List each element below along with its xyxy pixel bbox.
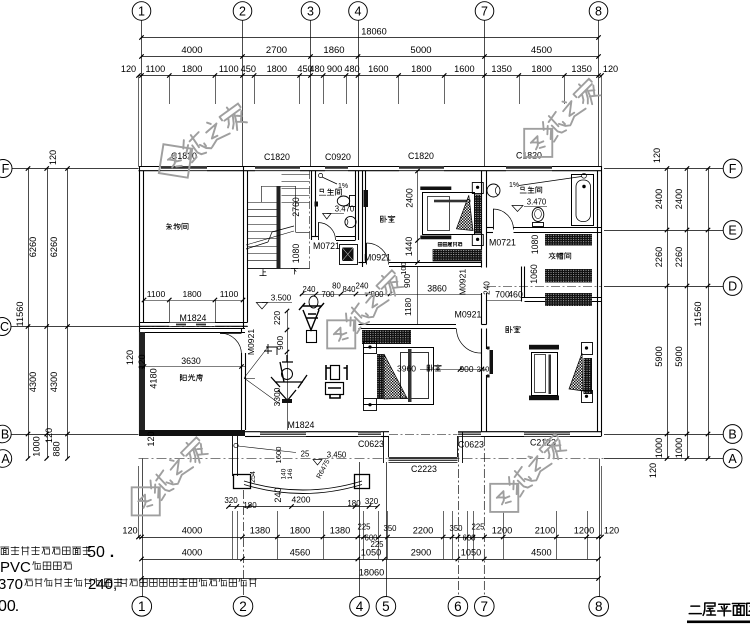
svg-text:1440: 1440 <box>404 237 414 257</box>
svg-text:1100: 1100 <box>220 289 239 299</box>
bath1 level 3.470 <box>323 205 355 220</box>
bath1 toilet <box>337 196 355 207</box>
right dim texts 120 2400 2260 11560 5900 1000 120 <box>648 148 703 478</box>
svg-text:240: 240 <box>477 365 490 374</box>
svg-text:350: 350 <box>383 524 397 533</box>
svg-text:450: 450 <box>241 64 256 74</box>
hall door label M0921 vertical <box>246 329 256 355</box>
svg-text:8: 8 <box>595 5 602 19</box>
svg-text:900: 900 <box>460 364 474 374</box>
svg-text:1000: 1000 <box>674 438 684 458</box>
svg-text:A: A <box>1 452 10 466</box>
svg-text:120: 120 <box>604 526 619 536</box>
stair break line <box>246 226 294 249</box>
svg-text:240,: 240, <box>88 576 117 593</box>
svg-text:3300: 3300 <box>272 387 282 406</box>
balcony small circle + 25 leader <box>234 443 310 458</box>
interior wall bath1 left x311 <box>312 171 316 240</box>
svg-text:PVC: PVC <box>0 559 31 576</box>
grid bubbles bottom 1 2 4 5 6 7 8 <box>132 597 609 617</box>
interior wall x481 full height <box>482 171 494 432</box>
svg-text:1100: 1100 <box>219 64 239 74</box>
window C0623 right in wall B <box>458 432 481 437</box>
sunroom bottom thick wall <box>139 430 245 436</box>
svg-text:240: 240 <box>483 281 492 295</box>
interior wall storage bottom y324 M1824 opening <box>139 300 248 327</box>
sunroom top wall <box>139 329 245 333</box>
svg-text:D: D <box>728 280 737 294</box>
bedroom1 wardrobe hatch <box>433 249 482 261</box>
hall leader diagonals <box>244 347 280 404</box>
svg-text:120: 120 <box>44 428 54 443</box>
bottom dimension row 18060 <box>139 568 600 581</box>
svg-text:11560: 11560 <box>15 302 25 327</box>
svg-text:120: 120 <box>648 463 658 478</box>
note line2 PVC <box>0 559 71 576</box>
note line4 <box>0 598 19 615</box>
bath2 toilet <box>532 208 544 227</box>
svg-text:.: . <box>15 598 19 615</box>
svg-text:4300: 4300 <box>49 372 59 392</box>
svg-text:C2223: C2223 <box>411 464 437 474</box>
balcony pillar right <box>355 475 370 489</box>
svg-text:350: 350 <box>449 524 463 533</box>
bath1 floor drain + leader 1% <box>319 173 349 190</box>
svg-text:M1824: M1824 <box>288 420 315 430</box>
watermark D center <box>313 263 412 362</box>
svg-text:6260: 6260 <box>49 237 59 257</box>
svg-text:3630: 3630 <box>181 356 201 366</box>
hall gym machine 1 <box>299 296 324 343</box>
svg-text:1060: 1060 <box>529 264 539 284</box>
svg-text:M0921: M0921 <box>364 253 391 263</box>
svg-text:25: 25 <box>301 450 310 459</box>
title 二层平面图 <box>687 603 750 623</box>
svg-text:B: B <box>1 428 9 442</box>
sunroom door M0921 arc <box>220 333 242 355</box>
interior wall stair left x243 <box>244 166 248 329</box>
svg-text:320: 320 <box>365 497 379 506</box>
svg-text:1000: 1000 <box>32 436 42 456</box>
stair treads <box>248 175 310 269</box>
hall vertical dim chain 1440 100 900 1180 <box>399 262 418 324</box>
bath1 washbasin <box>345 216 356 227</box>
svg-text:900: 900 <box>275 336 285 350</box>
svg-text:600: 600 <box>462 534 476 543</box>
bedroom1 bed <box>420 183 483 246</box>
svg-text:M1824: M1824 <box>180 313 207 323</box>
bottom dimension row C 4000 4560 1050 2900 1050 4500 <box>139 540 600 561</box>
sunroom label <box>180 374 202 381</box>
svg-text:1860: 1860 <box>323 45 344 56</box>
svg-text:6: 6 <box>454 599 462 614</box>
svg-text:4: 4 <box>355 5 362 19</box>
svg-text:3.470: 3.470 <box>527 198 547 207</box>
interior wall bedroom3 top y299 <box>521 298 602 302</box>
left dimension vertical lines <box>26 166 70 460</box>
svg-text:C1820: C1820 <box>264 152 290 162</box>
storage door label M1824 <box>180 313 207 323</box>
left grid line F <box>2 168 139 170</box>
watermark F bottom right <box>476 426 575 525</box>
bedroom1 label <box>380 216 394 223</box>
svg-text:120: 120 <box>121 64 136 74</box>
left grid line B <box>2 434 139 436</box>
balcony left edge <box>233 436 238 476</box>
svg-text:1350: 1350 <box>491 64 511 74</box>
svg-text:B: B <box>728 428 736 442</box>
cloakroom dims 1080 1060 <box>529 235 540 284</box>
svg-text:00: 00 <box>0 598 16 615</box>
svg-text:1600: 1600 <box>454 64 474 74</box>
svg-text:2760: 2760 <box>291 197 301 217</box>
bedroom2 door M0921 <box>455 310 482 354</box>
svg-text:50: 50 <box>87 544 105 561</box>
balcony dims 1600 254 140 146 240 R6475 <box>250 447 332 483</box>
balcony arc railing R6475 <box>244 481 362 494</box>
window label C1820 #2 <box>264 152 290 162</box>
svg-text:2400: 2400 <box>674 189 684 209</box>
svg-text:480: 480 <box>344 64 359 74</box>
bottom dimension row B 120 4000 1380 1800 1380 ... 120 <box>122 523 619 543</box>
exterior top wall with windows C1820 C1820 C0920 C1820 C1820 <box>139 167 602 171</box>
left grid bubble F <box>0 160 12 178</box>
hall gym machine 3 <box>326 365 348 398</box>
svg-text:4180: 4180 <box>149 368 159 388</box>
svg-text:840: 840 <box>342 285 356 294</box>
dimension row 18060 top <box>139 27 600 40</box>
svg-text:4200: 4200 <box>292 495 311 505</box>
svg-text:120: 120 <box>603 64 618 74</box>
cloakroom label 衣帽间 <box>549 253 571 260</box>
bath2 leader 1% drain <box>509 173 586 189</box>
svg-text:120: 120 <box>137 354 147 369</box>
stair center rails <box>277 186 281 269</box>
bedroom3 bed <box>529 343 593 403</box>
balcony bay right wall <box>458 432 463 463</box>
balcony bay left wall <box>384 432 389 463</box>
sunroom dims 120 <box>125 350 156 447</box>
svg-text:3.500: 3.500 <box>271 294 292 303</box>
svg-text:3860: 3860 <box>427 284 447 294</box>
hall door label M1824 <box>288 420 315 430</box>
svg-text:900: 900 <box>327 64 342 74</box>
bath2 bathtub <box>572 175 594 226</box>
hall left dim chain 220 900 3300 <box>272 309 289 430</box>
svg-text:M0921: M0921 <box>246 329 256 355</box>
left dim texts 120 6260 11560 4300 1000 880 <box>15 150 62 457</box>
svg-text:3.450: 3.450 <box>327 451 347 460</box>
note line1 <box>1 544 115 561</box>
svg-text:460: 460 <box>508 290 523 300</box>
svg-text:1100: 1100 <box>147 289 166 299</box>
svg-text:3960: 3960 <box>397 364 416 374</box>
svg-text:M0721: M0721 <box>489 238 516 248</box>
svg-text:2100: 2100 <box>535 526 555 536</box>
svg-text:220: 220 <box>272 311 282 325</box>
svg-text:5: 5 <box>382 599 390 614</box>
svg-text:180: 180 <box>347 499 361 508</box>
left grid bubble C <box>0 318 11 336</box>
grid line A dash-dot <box>139 458 605 460</box>
bedroom1 wardrobe note <box>438 242 462 246</box>
svg-text:180: 180 <box>243 501 257 510</box>
grid D dash line through plan <box>487 286 601 288</box>
svg-text:1000: 1000 <box>654 438 664 458</box>
left grid bubble A <box>0 450 12 468</box>
svg-text:4: 4 <box>356 599 364 614</box>
balcony pillar left <box>234 475 251 489</box>
svg-text:4000: 4000 <box>181 45 202 56</box>
right dimension vertical lines <box>665 166 710 460</box>
svg-text:M0921: M0921 <box>458 269 468 295</box>
storage room label 杂物间 <box>166 223 188 230</box>
watermark C top right <box>510 71 609 170</box>
stair up down labels <box>260 268 298 275</box>
svg-text:.: . <box>110 544 114 561</box>
svg-text:2400: 2400 <box>654 189 664 209</box>
svg-text:C1820: C1820 <box>408 151 434 161</box>
svg-text:1: 1 <box>138 5 145 19</box>
sunroom left thick wall <box>139 332 145 432</box>
svg-text:120: 120 <box>652 148 662 163</box>
note line3 <box>0 576 256 593</box>
balcony level 3.450 <box>313 451 347 466</box>
svg-text:1200: 1200 <box>492 526 512 536</box>
extension lines below top dims <box>139 76 602 167</box>
window C2123 in wall B <box>524 432 570 437</box>
svg-text:240: 240 <box>273 487 283 502</box>
svg-text:225: 225 <box>370 540 384 549</box>
bottom wall B with openings and windows <box>245 432 602 437</box>
svg-text:100: 100 <box>399 262 408 275</box>
bath2 washbasin <box>487 184 500 197</box>
svg-text:1100: 1100 <box>146 64 166 74</box>
svg-text:2260: 2260 <box>654 247 664 267</box>
svg-text:700: 700 <box>321 290 335 299</box>
hall door label M0921 vertical right <box>458 269 468 295</box>
svg-text:2900: 2900 <box>411 548 431 558</box>
right grid lines F E D B A <box>604 169 723 459</box>
svg-text:4300: 4300 <box>28 372 38 392</box>
hall level 3.500 <box>256 294 292 310</box>
balcony bay window C2223 <box>389 458 458 463</box>
svg-text:1800: 1800 <box>290 526 310 536</box>
bedroom1 door M0921 <box>364 243 391 265</box>
svg-text:1600: 1600 <box>368 64 388 74</box>
door M1824 hall to balcony <box>260 432 306 437</box>
exterior left wall <box>140 166 144 434</box>
svg-text:1%: 1% <box>509 182 519 189</box>
svg-text:3: 3 <box>307 5 314 19</box>
svg-text:120: 120 <box>125 350 135 365</box>
svg-text:7: 7 <box>481 5 488 19</box>
svg-text:1800: 1800 <box>267 64 287 74</box>
svg-text:1200: 1200 <box>574 526 594 536</box>
svg-text:370: 370 <box>0 576 23 593</box>
svg-text:M0921: M0921 <box>455 310 482 320</box>
corridor dims 240 700 460 <box>483 281 523 301</box>
bath2 door label M0721 <box>489 238 516 248</box>
svg-text:1080: 1080 <box>530 235 540 255</box>
svg-text:1: 1 <box>138 599 146 614</box>
svg-text:254: 254 <box>250 471 257 483</box>
svg-text:1600: 1600 <box>274 447 283 464</box>
svg-text:4500: 4500 <box>531 548 551 558</box>
dimension row 4000 2700 1860 5000 4500 top <box>139 45 600 59</box>
bedroom2 labels 3960 卧室 900 240 <box>397 364 489 375</box>
window C0623 left in wall B <box>358 432 381 437</box>
svg-text:M0721: M0721 <box>313 241 340 251</box>
svg-text:320: 320 <box>224 496 238 505</box>
svg-text:480: 480 <box>309 64 324 74</box>
svg-text:1350: 1350 <box>571 64 591 74</box>
svg-text:80: 80 <box>332 282 341 291</box>
svg-text:1%: 1% <box>338 183 348 190</box>
watermark A top left <box>147 95 256 190</box>
watermark E bottom left <box>118 430 217 529</box>
hall dim row 240 700 80 840 240 900 <box>300 282 392 299</box>
stair dims 2760 1080 <box>291 197 301 263</box>
interior wall bedroom1 bottom y264 <box>359 263 482 267</box>
sunroom dim 4180 <box>149 368 159 388</box>
bath2 door M0721 <box>493 209 514 230</box>
svg-text:C0920: C0920 <box>325 152 351 162</box>
svg-text:240: 240 <box>302 285 316 294</box>
left grid bubble B <box>0 425 11 443</box>
grid vertical stems top <box>142 20 599 166</box>
svg-text:1800: 1800 <box>411 64 431 74</box>
cloakroom closets hatch rows <box>545 234 592 306</box>
svg-text:1180: 1180 <box>403 298 413 316</box>
svg-text:F: F <box>2 162 10 176</box>
bath1 door M0721 <box>315 202 336 241</box>
svg-text:F: F <box>729 162 737 176</box>
svg-text:1800: 1800 <box>531 64 551 74</box>
svg-text:1050: 1050 <box>461 548 481 558</box>
left grid line C <box>2 326 248 328</box>
hall small chair icon <box>264 344 277 355</box>
svg-text:2: 2 <box>239 599 247 614</box>
svg-text:120: 120 <box>122 526 137 536</box>
bedroom1 dims 2400 1440 <box>404 169 420 265</box>
svg-text:C0623: C0623 <box>458 440 484 450</box>
window label C1820 #1 <box>171 151 197 161</box>
svg-text:8: 8 <box>595 599 603 614</box>
svg-text:146: 146 <box>287 468 294 479</box>
svg-text:240: 240 <box>355 282 369 291</box>
window label C1820 #3 <box>408 151 434 161</box>
hall dim 3860 <box>390 284 482 295</box>
svg-text:2: 2 <box>239 5 246 19</box>
svg-text:18060: 18060 <box>359 568 385 578</box>
svg-text:11560: 11560 <box>693 302 703 327</box>
svg-text:5900: 5900 <box>654 346 664 366</box>
bottom sub dimension row 320 180 240 4200 180 320 <box>224 487 379 510</box>
svg-text:4000: 4000 <box>182 548 202 558</box>
svg-text:4000: 4000 <box>182 526 202 536</box>
svg-text:1050: 1050 <box>361 548 381 558</box>
svg-text:5900: 5900 <box>674 346 684 366</box>
grid 3 dash line through stair <box>309 171 311 270</box>
storage inner dim 1100 1800 1100 <box>142 289 245 302</box>
svg-text:C: C <box>0 320 9 334</box>
svg-text:4560: 4560 <box>290 548 310 558</box>
svg-text:E: E <box>728 224 736 238</box>
interior wall bath1 right x355 <box>356 171 359 240</box>
svg-text:2260: 2260 <box>674 247 684 267</box>
exterior right wall <box>598 166 602 436</box>
bath2 level 3.470 <box>512 198 547 212</box>
interior wall cloak left x521 <box>522 267 525 302</box>
bath1 bottom wall y238 <box>312 237 356 241</box>
window label C0920 <box>325 152 351 162</box>
svg-text:7: 7 <box>481 599 489 614</box>
grid bubbles top row 1 2 3 4 7 8 <box>132 2 608 21</box>
window label C1820 #4 <box>516 151 542 161</box>
svg-text:2400: 2400 <box>405 188 415 208</box>
bottom extension and stem lines <box>139 437 602 597</box>
svg-text:1380: 1380 <box>250 526 270 536</box>
svg-text:4500: 4500 <box>531 45 552 56</box>
bedroom2 bed <box>364 342 434 411</box>
vent shaft <box>340 245 358 265</box>
interior wall E bath2 bottom <box>487 228 602 233</box>
svg-text:1380: 1380 <box>330 526 350 536</box>
svg-text:2700: 2700 <box>266 45 287 56</box>
right grid bubbles F E D B A <box>723 159 742 468</box>
interior wall bedroom2 top y326 <box>359 325 487 329</box>
sunroom inner dim 3630 line <box>139 356 245 369</box>
svg-text:6260: 6260 <box>28 237 38 257</box>
svg-text:C1820: C1820 <box>516 151 542 161</box>
svg-text:A: A <box>728 452 737 466</box>
bath1 door label M0721 <box>313 241 340 251</box>
interior wall bedroom1 left x362 <box>363 171 369 267</box>
svg-text:5000: 5000 <box>410 45 431 56</box>
hall gym machine 2 <box>271 355 307 403</box>
balcony labels C0623 C0623 C2123 C2223 <box>358 438 556 475</box>
bedroom3 label <box>506 326 520 333</box>
svg-text:120: 120 <box>146 431 156 446</box>
svg-text:900: 900 <box>402 274 412 288</box>
bedroom2 wardrobe hatch <box>362 330 411 344</box>
bath2 label 卫生间 <box>520 187 542 194</box>
sunroom right wall with door M0921 <box>242 329 246 431</box>
svg-text:2200: 2200 <box>413 526 433 536</box>
svg-text:18060: 18060 <box>361 27 387 37</box>
svg-text:1800: 1800 <box>182 289 201 299</box>
grid line B dash through bay opening <box>389 434 458 436</box>
svg-text:120: 120 <box>48 150 58 165</box>
dimension row 120 1100 1800 1100 450 1800 450 480 900 480 1600 1800 1600 1350 1800 1350 120 top <box>121 64 618 78</box>
svg-text:1080: 1080 <box>291 244 301 264</box>
svg-text:1800: 1800 <box>182 64 202 74</box>
svg-text:C0623: C0623 <box>358 439 384 449</box>
bath1 label 卫生间 <box>319 189 341 196</box>
